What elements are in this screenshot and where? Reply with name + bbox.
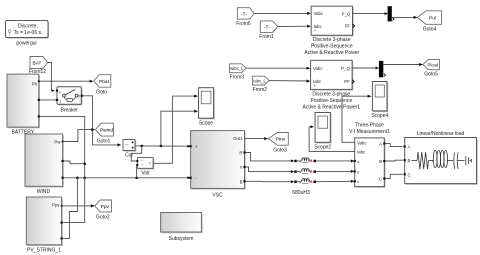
svg-text:c: c <box>357 180 359 184</box>
svg-text:P_Q: P_Q <box>342 11 351 16</box>
RLC branch L1 <box>294 158 354 163</box>
svg-text:B: B <box>408 158 411 163</box>
wire Cur out to VSC <box>135 145 191 148</box>
wire VSC B to branch 3 <box>246 180 295 183</box>
svg-text:Discrete,: Discrete, <box>18 24 38 30</box>
From tag From12 BAT <box>29 57 48 75</box>
svg-text:Ppv: Ppv <box>101 204 110 210</box>
demux bus bar 2 <box>379 61 386 77</box>
wire From1 to Iabc <box>278 25 311 28</box>
svg-text:Pinv: Pinv <box>276 137 286 143</box>
svg-text:Subsystem: Subsystem <box>169 236 194 242</box>
svg-text:Pwind: Pwind <box>100 128 113 134</box>
svg-text:b: b <box>357 170 359 174</box>
svg-text:BAT: BAT <box>33 61 42 67</box>
wire VSC R to branch 1 <box>246 153 295 163</box>
wire PV Ppv to Goto2 <box>62 204 95 207</box>
svg-text:From3: From3 <box>230 75 245 81</box>
svg-text:a: a <box>357 160 359 164</box>
svg-text:Vabc_L: Vabc_L <box>230 66 245 71</box>
wire WIND Pw up to Pwind goto <box>63 128 96 142</box>
svg-text:powergui: powergui <box>16 41 36 47</box>
WIND port squares <box>62 141 64 179</box>
svg-text:Discrete 3-phase: Discrete 3-phase <box>313 37 351 43</box>
svg-text:B: B <box>240 179 243 184</box>
measurement block Volt <box>136 158 154 177</box>
svg-text:Volt: Volt <box>141 171 150 177</box>
wire From2 to Iabc <box>269 80 310 83</box>
svg-text:P_Q: P_Q <box>341 66 350 71</box>
wire bus up to Volt in2 <box>136 165 138 178</box>
svg-text:B: B <box>379 159 382 164</box>
svg-text:Goto1: Goto1 <box>97 139 111 145</box>
svg-text:Iabc: Iabc <box>313 79 322 84</box>
svg-text:Goto: Goto <box>96 89 107 95</box>
From tag From6 <box>236 8 254 27</box>
svg-text:-T-: -T- <box>241 11 247 17</box>
From tag From2 <box>252 76 269 93</box>
svg-text:Goto3: Goto3 <box>273 148 287 154</box>
svg-text:Iabc: Iabc <box>357 149 366 154</box>
PV port squares <box>61 205 63 240</box>
three-phase V-I measurement block <box>349 123 390 188</box>
svg-text:Goto2: Goto2 <box>96 214 110 220</box>
svg-text:WIND: WIND <box>37 189 51 195</box>
load inner circuit drawing <box>412 150 472 169</box>
Goto tag Ppv Goto2 <box>95 200 112 220</box>
VSC port squares <box>190 145 246 182</box>
svg-text:c: c <box>59 90 61 95</box>
svg-text:VSC: VSC <box>212 192 223 198</box>
svg-text:680uH3: 680uH3 <box>292 190 310 196</box>
wire P_Q to demux 2 <box>352 67 379 70</box>
wire VSC Out1 to Pinv goto <box>245 137 269 140</box>
wire demux to Goto5 <box>383 63 423 66</box>
RLC branch L3 680uH3 <box>292 179 354 196</box>
demux bus bar 1 <box>388 6 394 21</box>
subsystem block BATTERY <box>7 74 40 136</box>
svg-text:Scope2: Scope2 <box>314 145 331 151</box>
wire WIND mid joins bus <box>64 161 85 164</box>
svg-text:Vabc: Vabc <box>313 66 323 71</box>
svg-text:Linear/Nonlinear load: Linear/Nonlinear load <box>417 131 465 137</box>
svg-text:A: A <box>408 145 411 150</box>
breaker block <box>56 87 83 114</box>
svg-text:Positive-Sequence: Positive-Sequence <box>310 98 352 104</box>
svg-text:R: R <box>239 151 242 156</box>
wire BAT to breaker c <box>48 63 55 93</box>
Goto tag Pinv Goto3 <box>268 133 288 154</box>
wire junction down to Volt in1 <box>131 146 142 161</box>
svg-text:C: C <box>379 176 382 181</box>
wire battery bus down to PV mid <box>40 116 86 222</box>
wire main dc bus to VSC <box>64 176 191 179</box>
wire From6 to Vabc <box>254 12 311 15</box>
svg-text:Positive-Sequence: Positive-Sequence <box>311 44 353 50</box>
wire Vabc out up to Scope4 <box>342 95 371 143</box>
svg-text:Pb: Pb <box>32 81 38 86</box>
svg-text:From2: From2 <box>253 87 268 93</box>
load block Linear/Nonlinear load <box>404 131 478 185</box>
power measurement block U1 <box>304 6 359 56</box>
wire From3 to Vabc <box>246 67 310 70</box>
svg-text:Three-Phase: Three-Phase <box>355 123 384 129</box>
scope block Scope4 <box>371 82 388 120</box>
svg-text:A: A <box>379 142 382 147</box>
svg-text:Y: Y <box>240 165 243 170</box>
From tag From1 <box>259 21 278 40</box>
subsystem block WIND <box>25 134 64 195</box>
svg-text:Vabc: Vabc <box>314 11 324 16</box>
wire Volt out to Scope in1 <box>154 95 198 164</box>
svg-text:Iabc_L: Iabc_L <box>253 79 266 84</box>
svg-text:C: C <box>408 172 411 177</box>
svg-text:Ts = 1e-06 s.: Ts = 1e-06 s. <box>14 30 43 36</box>
scope block Scope2 <box>314 113 331 151</box>
svg-text:Active & Reactive Power: Active & Reactive Power <box>304 50 359 56</box>
wire P_Q to demux <box>353 12 389 15</box>
wire demux to Goto4 <box>392 16 418 19</box>
svg-text:Out1: Out1 <box>233 136 243 141</box>
From tag From3 <box>229 64 246 81</box>
wire battery to breaker port 1 <box>40 99 57 101</box>
svg-text:2: 2 <box>78 94 80 98</box>
powergui block <box>6 21 50 47</box>
svg-text:Iabc: Iabc <box>314 24 323 29</box>
Goto tag Pbat <box>94 75 111 96</box>
Goto tag Goto4 <box>417 11 441 33</box>
svg-text:PF: PF <box>344 79 350 84</box>
wire B to load <box>385 159 403 162</box>
wire A to load <box>385 144 403 147</box>
wire battery Pb to Pbat goto <box>39 80 94 83</box>
svg-text:Vabc: Vabc <box>357 140 367 145</box>
subsystem block Subsystem <box>161 213 203 243</box>
svg-text:V-I Measurement1: V-I Measurement1 <box>349 129 390 135</box>
wire C to load <box>385 174 403 178</box>
power measurement block U2 <box>303 60 361 110</box>
scope block Scope <box>199 88 215 127</box>
wire bus down to PV bottom <box>63 178 78 239</box>
svg-text:PF: PF <box>345 24 351 29</box>
wire breaker out down to Cur <box>83 96 121 147</box>
svg-text:Scope4: Scope4 <box>371 113 388 119</box>
svg-text:Goto5: Goto5 <box>424 72 438 78</box>
svg-text:Goto4: Goto4 <box>423 26 437 32</box>
svg-text:Pul: Pul <box>429 16 436 22</box>
subsystem block VSC <box>191 131 246 199</box>
svg-text:From1: From1 <box>259 34 274 40</box>
Goto tag Goto5 <box>423 59 440 77</box>
svg-text:Pbat: Pbat <box>99 79 110 85</box>
subsystem block PV_STRING_1 <box>26 197 63 253</box>
svg-text:Breaker: Breaker <box>60 107 78 113</box>
wire VSC Y to branch 2 <box>246 167 295 173</box>
RLC branch L2 <box>294 169 354 174</box>
svg-text:-T-: -T- <box>264 25 270 31</box>
svg-text:Active & Reactive Power1: Active & Reactive Power1 <box>303 104 361 110</box>
measurement block Cur <box>123 140 136 159</box>
wire Iabc out to Scope2 <box>309 125 355 151</box>
svg-text:Pw: Pw <box>54 140 61 145</box>
svg-text:PV_STRING_1: PV_STRING_1 <box>27 247 61 253</box>
wire Scope in2 tap <box>161 110 198 146</box>
battery output port squares <box>38 80 40 117</box>
svg-text:Scope: Scope <box>199 121 213 127</box>
svg-text:From6: From6 <box>236 21 251 27</box>
Goto tag Pwind Goto1 <box>95 123 113 144</box>
svg-text:Ppv: Ppv <box>52 203 60 208</box>
svg-text:Pload: Pload <box>427 62 438 67</box>
